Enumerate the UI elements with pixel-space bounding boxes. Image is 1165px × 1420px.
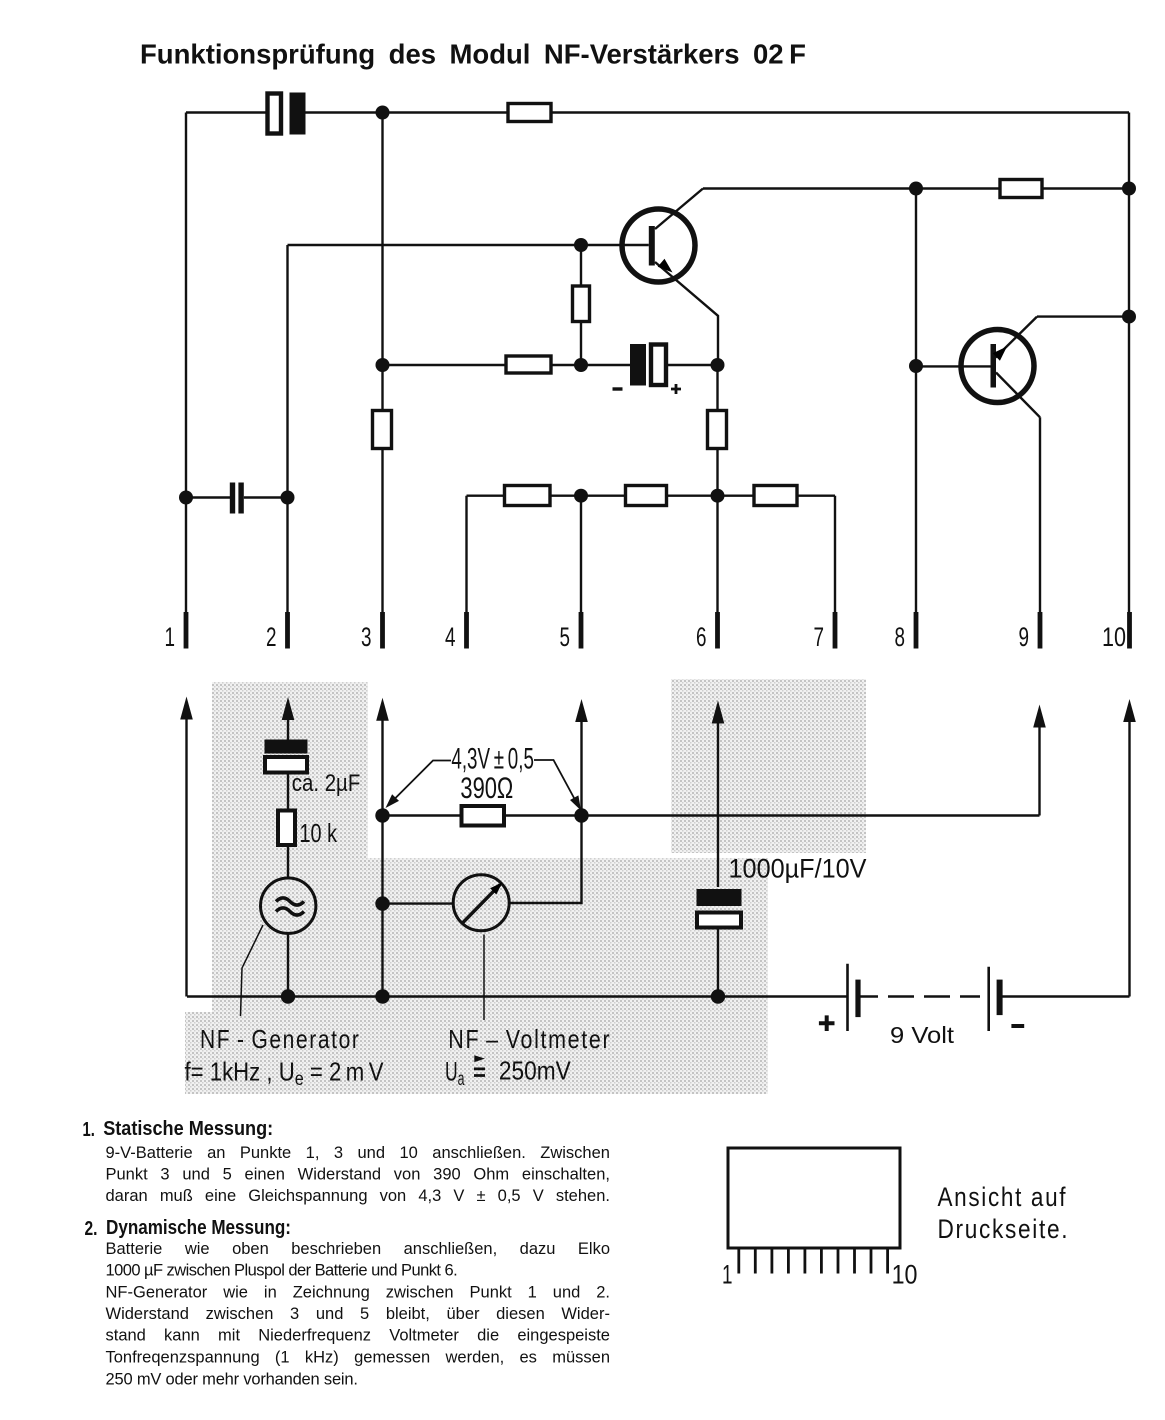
svg-text:10 k: 10 k (300, 818, 338, 848)
NF generator G1 (261, 878, 316, 933)
pin 6 tick (715, 612, 720, 649)
wire right rail pin10 column (1128, 113, 1130, 647)
svg-text:1.: 1. (83, 1119, 95, 1141)
svg-text:Batterie wie oben beschrieben: Batterie wie oben beschrieben anschließe… (106, 1240, 611, 1258)
svg-text:390Ω: 390Ω (460, 772, 513, 805)
wire pin5 column upper segment (580, 245, 582, 365)
node pin5 rail495 (574, 489, 588, 503)
svg-text:2.: 2. (85, 1218, 98, 1240)
svg-text:Statische Messung:: Statische Messung: (103, 1118, 273, 1140)
svg-text:ca. 2µF: ca. 2µF (292, 770, 361, 797)
NF voltmeter M1 (453, 875, 509, 931)
leader line to NF-Generator label (241, 925, 264, 1016)
battery minus sign (1011, 1024, 1024, 1028)
resistor R3 (pin5 vertical) (573, 286, 590, 322)
wire test lead pin9 (1038, 722, 1040, 816)
pin 7 tick (833, 612, 838, 649)
leader line to NF-Voltmeter label (483, 935, 485, 1021)
svg-text:Druckseite.: Druckseite. (938, 1214, 1070, 1244)
capacitor C1 (input, polarized) (268, 93, 306, 135)
wire pin2 column (286, 245, 288, 646)
svg-text:3: 3 (361, 622, 372, 652)
resistor R2 (collector rail) (1000, 180, 1042, 198)
wire rail y365 (383, 364, 718, 366)
wire Q2 emitter rail y316 (1037, 315, 1129, 317)
wire pin8 column (915, 189, 917, 647)
svg-text:stand kann mit Niederfrequenz: stand kann mit Niederfrequenz Voltmeter … (106, 1327, 611, 1345)
svg-text:8: 8 (895, 622, 906, 652)
svg-text:1000µF/10V: 1000µF/10V (729, 854, 867, 884)
resistor R5 (pin3 vertical) (373, 411, 392, 449)
svg-text:10: 10 (892, 1260, 918, 1290)
node pin6 bottom rail (711, 989, 725, 1003)
shaded zone behind NF-Voltmeter (368, 858, 768, 1012)
wire pin5 column lower segment (580, 496, 582, 646)
wire test lead pin3 (381, 715, 383, 997)
resistor R7 (pins 4-5) (505, 486, 551, 506)
svg-text:4,3V ± 0,5: 4,3V ± 0,5 (451, 743, 534, 776)
svg-text:NF – Voltmeter: NF – Voltmeter (448, 1024, 611, 1054)
resistor R10 10k (278, 811, 295, 846)
svg-text:Widerstand zwischen 3 und 5 bl: Widerstand zwischen 3 und 5 bleibt, über… (106, 1305, 610, 1323)
wire capacitor row pins 1-2 (186, 496, 288, 498)
svg-text:1: 1 (722, 1260, 733, 1290)
battery BT1 9 Volt (848, 964, 1003, 1031)
resistor R8 (pins 5-6) (626, 486, 667, 506)
wire test lead pin6 (717, 718, 719, 997)
node Q2 base (909, 359, 923, 373)
svg-text:7: 7 (814, 622, 825, 652)
svg-text:10: 10 (1102, 622, 1126, 652)
svg-text:Punkt 3 und 5 einen Widerstand: Punkt 3 und 5 einen Widerstand von 390 O… (106, 1165, 610, 1183)
svg-text:4: 4 (445, 622, 456, 652)
pin 4 tick (464, 612, 469, 649)
wire pin6 column (716, 365, 718, 646)
wire test lead pin2 (287, 714, 289, 997)
node right rail y316 (1122, 310, 1136, 324)
node pin1 cap row (179, 491, 193, 505)
wire voltmeter right branch (509, 816, 581, 903)
svg-text:9-V-Batterie an Punkte 1, 3 un: 9-V-Batterie an Punkte 1, 3 und 10 ansch… (106, 1144, 610, 1162)
node pin3 top rail (376, 106, 390, 120)
pin 8 tick (914, 612, 919, 649)
svg-text:6: 6 (696, 622, 707, 652)
svg-text:5: 5 (560, 622, 571, 652)
wire bottom return rail (187, 995, 1130, 997)
wire pin4 column (465, 496, 467, 646)
leader to node pin5 with arrow (534, 760, 577, 803)
node pin3 rail815 (375, 808, 389, 822)
wire rail y495 pins 4-7 (467, 495, 836, 497)
pin 1 tick (184, 612, 189, 649)
svg-text:1: 1 (165, 622, 176, 652)
shaded zone behind NF-Generator column (212, 682, 368, 1012)
wire left rail pin1 column (185, 113, 187, 647)
resistor R11 390 Ohm (462, 806, 505, 826)
shaded zone behind instrument labels (185, 1012, 768, 1094)
node pin5 rail365 (574, 358, 588, 372)
wire collector rail y188 (703, 187, 1129, 189)
resistor R9 (pins 6-7) (754, 486, 797, 506)
node pin6 rail365 (711, 358, 725, 372)
svg-text:Funktionsprüfung des Modul NF-: Funktionsprüfung des Modul NF-Verstärker… (140, 39, 806, 70)
test lead arrow to pin 5 (575, 699, 588, 722)
svg-text:NF - Generator: NF - Generator (200, 1024, 361, 1054)
pin 2 tick (285, 612, 290, 649)
node pin3 rail365 (376, 358, 390, 372)
capacitor C4 ca. 2uF (series with generator) (265, 740, 308, 773)
resistor R6 (pin6 vertical) (708, 411, 727, 449)
wire battery dashed section (888, 995, 980, 998)
wire pin3 column (381, 113, 383, 647)
transistor Q2 (916, 317, 1040, 418)
svg-text:2: 2 (266, 622, 277, 652)
test lead arrow to pin 2 (282, 697, 295, 720)
svg-text:9 Volt: 9 Volt (890, 1022, 955, 1048)
resistor R4 (rail y365) (506, 356, 551, 373)
svg-text:Ansicht auf: Ansicht auf (938, 1182, 1068, 1212)
svg-text:Dynamische Messung:: Dynamische Messung: (106, 1217, 291, 1239)
node Q1 base (574, 238, 588, 252)
node right rail y188 (1122, 182, 1136, 196)
svg-text:f= 1kHz , Ue = 2 m V: f= 1kHz , Ue = 2 m V (185, 1057, 385, 1091)
svg-text:1000 µF zwischen Pluspol der B: 1000 µF zwischen Pluspol der Batterie un… (106, 1262, 458, 1280)
shaded zone behind point-6 column (671, 679, 866, 853)
svg-text:250mV: 250mV (499, 1056, 571, 1086)
module outline (Ansicht auf Druckseite) (728, 1148, 900, 1248)
node pin6 rail495 (711, 489, 725, 503)
test lead arrow to pin 6 (712, 701, 725, 724)
test lead arrow to pin 1 (180, 697, 193, 720)
wire pin7 column (834, 496, 836, 646)
wire top rail node1 to node10 (186, 111, 1129, 113)
test lead arrow to pin 10 (1123, 699, 1136, 722)
svg-text:NF-Generator wie in Zeichnung: NF-Generator wie in Zeichnung zwischen P… (106, 1283, 611, 1301)
capacitor C3 (pins 1-2) (230, 483, 244, 514)
wire pin9 column upper (1039, 417, 1041, 646)
capacitor C2 (polarized, rail y365) (613, 344, 682, 394)
capacitor C5 1000uF/10V (697, 889, 742, 928)
svg-text:daran muß eine Gleichspannung: daran muß eine Gleichspannung von 4,3 V … (106, 1187, 610, 1205)
pin 3 tick (380, 612, 385, 649)
battery plus sign (819, 1015, 835, 1031)
node pin2 bottom rail (281, 989, 295, 1003)
wire test lead pin10 (1128, 716, 1130, 997)
module pins 1-10 (739, 1250, 888, 1274)
pin 9 tick (1038, 612, 1043, 649)
test lead arrow to pin 3 (376, 698, 389, 721)
wire 390 Ohm rail y815 (383, 814, 1040, 816)
test lead arrow to pin 9 (1033, 705, 1046, 728)
node pin3 bottom rail (375, 989, 389, 1003)
pin 5 tick (579, 612, 584, 649)
transistor Q1 (622, 189, 718, 366)
pin 10 tick (1127, 612, 1132, 649)
resistor R1 (top rail) (508, 104, 551, 122)
wire test lead pin5 (580, 716, 582, 816)
node pin8 collector rail (909, 182, 923, 196)
wire voltmeter left branch (383, 902, 454, 904)
node pin3 voltmeter branch (375, 896, 389, 910)
wire Q1 base rail (288, 244, 649, 246)
node pin2 cap row (281, 491, 295, 505)
node pin5 rail815 (574, 808, 588, 822)
svg-text:Tonfreqenzspannung (1 kHz) gem: Tonfreqenzspannung (1 kHz) gemessen werd… (106, 1349, 611, 1367)
wire test lead pin1 (185, 714, 187, 997)
svg-text:9: 9 (1019, 622, 1030, 652)
leader to node pin3 with arrow (394, 761, 451, 800)
svg-text:250 mV oder mehr vorhanden sei: 250 mV oder mehr vorhanden sein. (106, 1370, 358, 1388)
